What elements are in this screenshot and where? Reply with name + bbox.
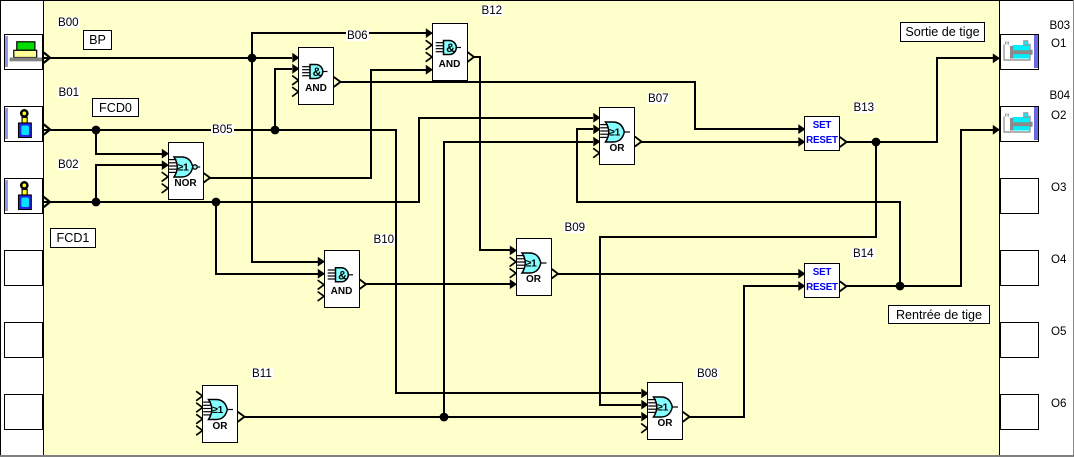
svg-text:&: & [446,41,455,55]
svg-text:&: & [313,65,322,79]
svg-text:≥1: ≥1 [609,128,621,139]
svg-text:≥1: ≥1 [657,403,669,414]
svg-text:≥1: ≥1 [178,163,190,174]
svg-text:≥1: ≥1 [212,405,224,416]
svg-text:&: & [338,268,347,282]
svg-text:≥1: ≥1 [526,259,538,270]
